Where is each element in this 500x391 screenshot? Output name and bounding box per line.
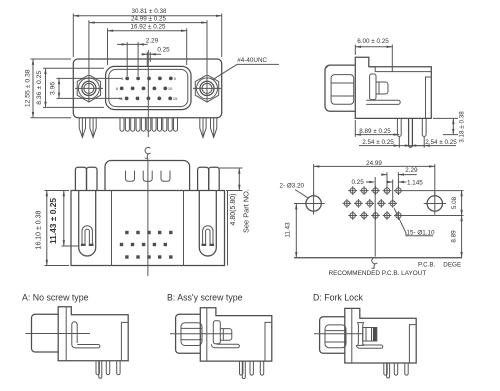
svg-text:5.08: 5.08	[451, 196, 458, 209]
svg-text:8.89 ± 0.25: 8.89 ± 0.25	[359, 128, 391, 135]
title D	[313, 293, 363, 303]
variant A contact	[72, 322, 100, 348]
shell side profile	[325, 65, 355, 111]
dimension 8.89±0.25	[355, 120, 399, 137]
contact pins row1	[125, 77, 172, 81]
variant B shell	[176, 314, 201, 353]
mounting hole left	[303, 192, 325, 214]
svg-text:10: 10	[168, 86, 173, 91]
dimension 2.29 pitch	[117, 38, 159, 76]
svg-text:DEGE: DEGE	[443, 262, 461, 269]
dimension 0.25 offset	[142, 46, 171, 66]
svg-text:30.81 ± 0.38: 30.81 ± 0.38	[132, 8, 167, 15]
screw block right	[198, 167, 220, 190]
dimension 11.43±0.25 bold	[48, 191, 80, 247]
pin holes grid row2	[343, 199, 398, 208]
svg-text:#4-40UNC: #4-40UNC	[237, 57, 267, 64]
svg-text:2- Ø3.20: 2- Ø3.20	[280, 183, 305, 190]
variant D shell	[320, 317, 345, 353]
dimension 2.54±0.25 left	[359, 137, 425, 148]
pcb edge	[294, 257, 462, 259]
svg-text:0.25: 0.25	[352, 179, 365, 186]
svg-text:11.43 ± 0.25: 11.43 ± 0.25	[48, 198, 58, 244]
dimension 6.00±0.25	[355, 38, 392, 72]
label #4-40UNC with leader	[213, 57, 280, 80]
band lines	[402, 191, 464, 216]
svg-text:1.145: 1.145	[407, 179, 423, 186]
dimension 1.145 pcb	[387, 179, 423, 199]
variant A flange and body	[58, 307, 128, 361]
variant D inner step	[409, 325, 416, 363]
variant D fork lock stud	[358, 323, 377, 346]
screw hole right (hex nut)	[193, 75, 221, 103]
boardlock slot right with fork	[199, 191, 216, 257]
jack screw rear + stud	[370, 74, 388, 100]
svg-text:P.C.B.: P.C.B.	[418, 262, 436, 269]
variant B contact	[211, 344, 239, 347]
svg-text:6.00 ± 0.25: 6.00 ± 0.25	[357, 38, 389, 45]
caption recommended pcb layout	[329, 270, 427, 277]
svg-text:2.29: 2.29	[146, 38, 159, 45]
dimension 2.54±0.25 right	[405, 137, 457, 148]
label 15-diam1.10	[394, 208, 435, 236]
svg-text:D: Fork Lock: D: Fork Lock	[313, 293, 363, 303]
svg-text:16.92 ± 0.25: 16.92 ± 0.25	[131, 24, 166, 31]
dimension 8.36±0.25	[36, 68, 104, 107]
centerline front view	[147, 50, 149, 137]
pin holes grid row1	[348, 186, 402, 195]
variant B flange and body	[200, 308, 271, 361]
svg-text:12.55 ± 0.38: 12.55 ± 0.38	[25, 69, 32, 107]
centerline pcb	[372, 177, 378, 268]
label PCB DEGE	[418, 262, 461, 269]
rear body	[71, 191, 228, 266]
variant D pins	[384, 363, 408, 378]
svg-text:11.43: 11.43	[285, 222, 292, 238]
variant A shell	[32, 314, 59, 352]
variant A inner step	[121, 322, 128, 360]
dimension 2.29 pcb	[381, 167, 418, 187]
rear shell	[105, 161, 190, 191]
D-shell outer	[106, 66, 191, 109]
centerline rear view	[147, 159, 149, 277]
solder tails (11 u-shapes)	[120, 118, 178, 132]
svg-text:0.25: 0.25	[157, 46, 170, 53]
dimension 16.92±0.25	[108, 24, 187, 65]
screw hole left (hex nut)	[75, 75, 103, 103]
svg-text:RECOMMENDED P.C.B. LAYOUT: RECOMMENDED P.C.B. LAYOUT	[329, 270, 427, 277]
svg-text:2.29: 2.29	[405, 167, 418, 174]
svg-text:2.54 ± 0.25: 2.54 ± 0.25	[362, 139, 394, 146]
pins side view	[397, 118, 426, 147]
variant A pins	[96, 361, 120, 379]
boardlock prong left pair	[79, 118, 96, 138]
variant B centerline	[170, 333, 232, 335]
flange side	[355, 57, 431, 118]
mounting hole right	[424, 192, 446, 214]
svg-text:24.99 ± 0.25: 24.99 ± 0.25	[131, 16, 166, 23]
svg-text:See Part NO.: See Part NO.	[241, 189, 250, 233]
note see part no	[241, 189, 250, 233]
dimension 11.43 pcb	[285, 204, 306, 258]
svg-text:A: No screw type: A: No screw type	[22, 293, 89, 303]
dimension 5.08 pcb	[451, 191, 463, 216]
variant D hex side	[325, 325, 346, 348]
svg-text:2.54 ± 0.25: 2.54 ± 0.25	[425, 139, 457, 146]
svg-text:B: Ass'y screw type: B: Ass'y screw type	[167, 293, 243, 303]
svg-text:15: 15	[173, 96, 178, 101]
dimension 8.89 pcb	[451, 216, 463, 258]
contact pins row3	[125, 97, 172, 101]
variant D contact	[356, 345, 382, 348]
variant B screw rear and stud	[213, 321, 232, 344]
variant D flange and body	[345, 308, 416, 363]
dimension 3.18±0.38	[433, 111, 466, 143]
dimension 24.99 pcb	[314, 160, 435, 195]
dimension 12.55±0.38	[25, 59, 72, 118]
contact L side	[366, 100, 400, 104]
svg-text:3.96: 3.96	[50, 82, 57, 95]
pin numbers	[116, 76, 178, 101]
body inner step right	[426, 77, 432, 118]
variant A centerline	[26, 333, 91, 335]
flange plate	[73, 59, 221, 118]
title B	[167, 293, 243, 303]
jack screw hex side	[331, 75, 354, 105]
contact pins row2	[120, 87, 167, 91]
rear shell slots	[126, 171, 170, 182]
dimension 16.10±0.38	[36, 191, 70, 266]
dimension 4.80(5.80)	[220, 168, 243, 225]
variant B pins	[240, 361, 264, 379]
centerline symbol between views	[145, 147, 151, 158]
dimension 24.99±0.25	[89, 16, 207, 74]
solder cup pads grid	[120, 231, 173, 259]
svg-text:4.80(5.80): 4.80(5.80)	[230, 194, 237, 226]
label 2-diam3.20	[280, 183, 309, 199]
pin holes grid row3	[348, 211, 402, 220]
svg-text:16.10 ± 0.38: 16.10 ± 0.38	[36, 210, 43, 249]
svg-text:8.89: 8.89	[451, 230, 458, 243]
variant D centerline	[314, 333, 363, 335]
svg-text:24.99: 24.99	[366, 160, 382, 167]
variant B hex side	[181, 323, 202, 346]
svg-text:8.36 ± 0.25: 8.36 ± 0.25	[36, 71, 43, 105]
screw block left	[75, 167, 97, 190]
dimension 0.25 pcb	[352, 179, 375, 186]
svg-text:3.18 ± 0.38: 3.18 ± 0.38	[459, 111, 466, 143]
variant B inner step	[265, 322, 272, 361]
title A	[22, 293, 89, 303]
boardlock prong right pair	[200, 118, 217, 138]
dimension 30.81±0.38	[73, 8, 221, 57]
dimension 3.96	[50, 78, 122, 98]
boardlock slot left with fork	[79, 191, 96, 257]
